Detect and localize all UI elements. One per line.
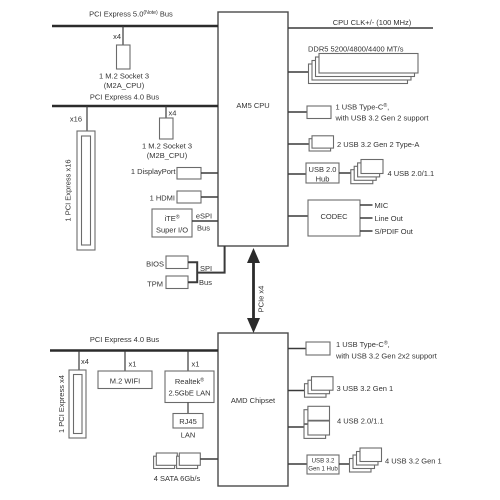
svg-text:Realtek®: Realtek® bbox=[175, 377, 204, 387]
svg-text:PCI Express 4.0 Bus: PCI Express 4.0 Bus bbox=[90, 335, 159, 344]
svg-text:PCI Express 5.0(Note) Bus: PCI Express 5.0(Note) Bus bbox=[89, 10, 173, 19]
svg-text:RJ45: RJ45 bbox=[179, 417, 197, 426]
svg-text:x4: x4 bbox=[81, 357, 89, 366]
svg-text:3 USB 3.2 Gen 1: 3 USB 3.2 Gen 1 bbox=[337, 384, 394, 393]
svg-text:LAN: LAN bbox=[181, 431, 196, 440]
svg-text:DDR5 5200/4800/4400 MT/s: DDR5 5200/4800/4400 MT/s bbox=[308, 45, 404, 54]
svg-text:Hub: Hub bbox=[316, 175, 330, 184]
svg-text:BIOS: BIOS bbox=[146, 260, 164, 269]
svg-text:1 DisplayPort: 1 DisplayPort bbox=[131, 167, 177, 176]
svg-text:Bus: Bus bbox=[197, 224, 210, 233]
svg-text:1 M.2 Socket 3: 1 M.2 Socket 3 bbox=[99, 72, 149, 81]
svg-text:1 PCI Express x4: 1 PCI Express x4 bbox=[57, 375, 66, 433]
svg-text:4 USB 2.0/1.1: 4 USB 2.0/1.1 bbox=[388, 169, 435, 178]
svg-text:(M2B_CPU): (M2B_CPU) bbox=[147, 151, 188, 160]
svg-text:2.5GbE LAN: 2.5GbE LAN bbox=[168, 389, 210, 398]
svg-text:CODEC: CODEC bbox=[320, 212, 348, 221]
svg-text:1 PCI Express x16: 1 PCI Express x16 bbox=[64, 159, 73, 221]
svg-text:1 M.2 Socket 3: 1 M.2 Socket 3 bbox=[142, 142, 192, 151]
svg-text:x1: x1 bbox=[129, 360, 137, 369]
svg-text:4 USB 3.2 Gen 1: 4 USB 3.2 Gen 1 bbox=[385, 457, 442, 466]
svg-text:USB 2.0: USB 2.0 bbox=[309, 165, 337, 174]
svg-text:1 HDMI: 1 HDMI bbox=[150, 194, 175, 203]
svg-text:2 USB 3.2 Gen 2 Type-A: 2 USB 3.2 Gen 2 Type-A bbox=[337, 140, 419, 149]
svg-text:4 USB 2.0/1.1: 4 USB 2.0/1.1 bbox=[337, 417, 384, 426]
svg-text:eSPI: eSPI bbox=[196, 212, 212, 221]
svg-text:1 USB Type-C®,: 1 USB Type-C®, bbox=[336, 340, 390, 350]
svg-text:M.2 WIFI: M.2 WIFI bbox=[110, 377, 140, 386]
svg-text:x4: x4 bbox=[169, 109, 177, 118]
svg-text:x1: x1 bbox=[192, 360, 200, 369]
svg-text:with USB 3.2 Gen 2 support: with USB 3.2 Gen 2 support bbox=[335, 114, 430, 123]
svg-text:TPM: TPM bbox=[147, 280, 163, 289]
svg-text:Line Out: Line Out bbox=[375, 214, 404, 223]
svg-text:PCI Express 4.0 Bus: PCI Express 4.0 Bus bbox=[90, 93, 159, 102]
svg-text:USB 3.2: USB 3.2 bbox=[312, 458, 335, 465]
svg-text:SPI: SPI bbox=[200, 264, 212, 273]
svg-text:AM5 CPU: AM5 CPU bbox=[236, 101, 269, 110]
svg-text:AMD Chipset: AMD Chipset bbox=[231, 396, 276, 405]
svg-text:x4: x4 bbox=[113, 32, 121, 41]
svg-text:x16: x16 bbox=[70, 115, 82, 124]
svg-text:1 USB Type-C®,: 1 USB Type-C®, bbox=[336, 102, 390, 112]
svg-text:with USB 3.2 Gen 2x2 support: with USB 3.2 Gen 2x2 support bbox=[335, 352, 438, 361]
svg-text:Gen 1 Hub: Gen 1 Hub bbox=[308, 466, 338, 473]
svg-text:4 SATA 6Gb/s: 4 SATA 6Gb/s bbox=[154, 474, 201, 483]
svg-text:CPU CLK+/- (100 MHz): CPU CLK+/- (100 MHz) bbox=[333, 18, 412, 27]
svg-text:PCIe x4: PCIe x4 bbox=[257, 286, 266, 313]
svg-text:Bus: Bus bbox=[199, 278, 212, 287]
svg-text:Super I/O: Super I/O bbox=[156, 226, 188, 235]
svg-text:(M2A_CPU): (M2A_CPU) bbox=[104, 81, 145, 90]
svg-text:S/PDIF Out: S/PDIF Out bbox=[375, 227, 414, 236]
svg-text:MIC: MIC bbox=[375, 201, 389, 210]
